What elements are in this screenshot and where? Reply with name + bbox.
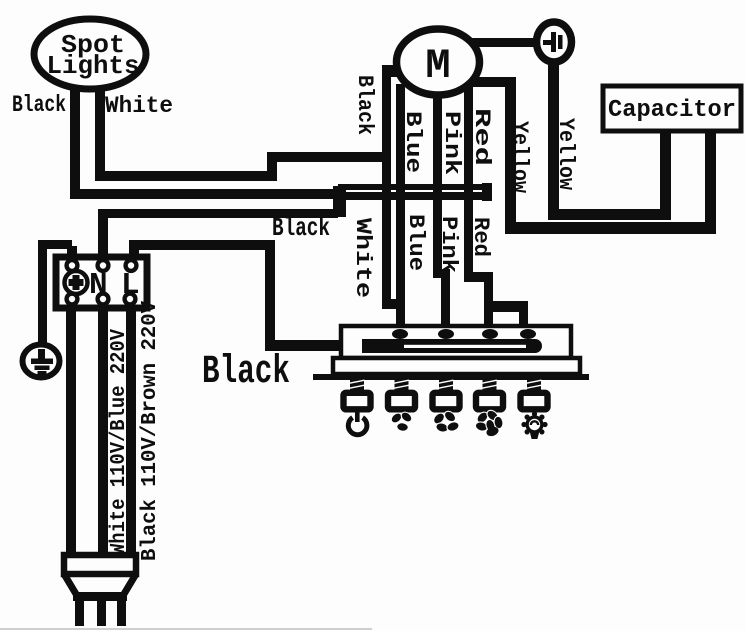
svg-text:Pink: Pink: [436, 216, 461, 273]
wire L vertical long: [265, 240, 275, 351]
svg-text:Black: Black: [352, 75, 377, 135]
terminal bottom 3: [125, 294, 136, 305]
scan artifact line bottom: [0, 628, 372, 630]
wire capacitor lead 1: [660, 128, 671, 214]
wire N vertical to terminal block: [98, 213, 108, 260]
node end cap of black line: [482, 183, 492, 201]
svg-text:White 110V/Blue 220V: White 110V/Blue 220V: [108, 329, 131, 555]
button 2 fan speed 1: [388, 379, 415, 432]
wire white horizontal lower run: [95, 171, 277, 181]
node dot 1: [392, 329, 408, 339]
wire stub down to dot4: [519, 301, 528, 336]
svg-text:White: White: [105, 93, 173, 119]
node dot 4: [520, 329, 536, 339]
wire yellow inner horizontal: [548, 209, 671, 220]
svg-text:N: N: [89, 268, 108, 303]
wire trunk bottom elbow to dot1: [382, 299, 404, 309]
wire pink vertical lower: [441, 269, 450, 336]
wire yellow inner vertical: [548, 58, 559, 220]
switch bottom plate: [333, 358, 580, 374]
motor M: [397, 29, 480, 95]
wire blue vertical: [396, 84, 405, 336]
earth symbol top (motor ground): [537, 22, 572, 62]
switch assembly: [313, 326, 589, 380]
node dot 3: [482, 329, 498, 339]
wire red jog: [464, 272, 493, 282]
terminal bottom 1: [67, 294, 78, 305]
switch slot bar: [362, 339, 542, 353]
svg-text:Pink: Pink: [439, 111, 464, 175]
svg-text:White: White: [350, 218, 375, 298]
button 3 fan speed 2: [432, 379, 461, 434]
terminal bottom 2: [98, 294, 109, 305]
wire red branch horizontal to dot4: [484, 301, 528, 312]
earth mark in block: [65, 271, 88, 294]
button 1 power switch: [344, 379, 371, 435]
terminal top 1: [67, 260, 78, 271]
wire yellow outer elbow from motor: [468, 77, 512, 87]
node junction blob black/N lines: [333, 186, 346, 217]
wire black double-line lower strand: [338, 192, 490, 200]
earth symbol left: [23, 345, 60, 378]
wire pink vertical upper: [433, 82, 442, 277]
lamp Spot Lights: [34, 19, 146, 89]
wire motor-left vertical (black/white trunk): [382, 65, 391, 309]
wire earth-left vertical: [38, 240, 47, 348]
capacitor box: [603, 86, 741, 131]
wire power cord middle: [98, 305, 108, 559]
svg-text:Blue: Blue: [403, 214, 428, 271]
svg-text:Black: Black: [272, 213, 330, 243]
svg-text:Black: Black: [202, 350, 290, 395]
terminal top 2: [98, 260, 109, 271]
wire capacitor lead 2: [705, 128, 716, 228]
wire power cord right: [126, 305, 136, 559]
svg-text:Red: Red: [468, 217, 493, 257]
wire power cord left: [66, 305, 76, 559]
wire N horizontal: [98, 209, 338, 218]
svg-text:M: M: [425, 42, 450, 90]
svg-text:Red: Red: [469, 108, 494, 166]
svg-text:Yellow: Yellow: [553, 118, 578, 191]
power plug: [64, 555, 136, 626]
svg-text:Black 110V/Brown 220V: Black 110V/Brown 220V: [139, 301, 162, 561]
svg-text:L: L: [121, 268, 140, 303]
wire motor-left elbow: [382, 65, 406, 77]
button 4 fan speed 3: [474, 379, 504, 438]
terminal top 3: [126, 260, 137, 271]
node dot 2: [438, 329, 454, 339]
switch top plate: [341, 326, 571, 358]
switch flange: [313, 374, 589, 380]
wire red vertical upper: [464, 79, 473, 282]
wire yellow outer horizontal: [505, 222, 716, 234]
wire white from spot lights (vertical): [95, 78, 105, 181]
svg-text:Black: Black: [12, 92, 66, 118]
wire black from spot lights (vertical): [70, 78, 80, 199]
wire white horizontal upper run: [267, 152, 391, 162]
svg-text:Blue: Blue: [400, 111, 425, 173]
wire earth-left stub from terminal: [67, 246, 77, 260]
button 5 light switch: [521, 379, 548, 440]
svg-text:Yellow: Yellow: [507, 121, 532, 194]
wire black horizontal main line: [70, 189, 341, 199]
svg-text:Lights: Lights: [47, 51, 140, 81]
wire white jog vertical: [267, 152, 277, 181]
wire L horizontal upper: [129, 240, 275, 250]
wire motor to earth symbol: [468, 38, 538, 47]
wire earth-left horizontal: [40, 240, 72, 249]
wire black double-line upper strand: [338, 184, 490, 190]
wire pink jog: [433, 269, 450, 278]
wire L horizontal into switch: [265, 340, 375, 351]
wire yellow outer vertical: [505, 77, 516, 234]
terminal block: [56, 257, 147, 308]
wire L vertical stub from terminal: [129, 246, 139, 260]
svg-text:Capacitor: Capacitor: [608, 97, 736, 124]
wire red vertical lower to dot3: [484, 272, 493, 336]
